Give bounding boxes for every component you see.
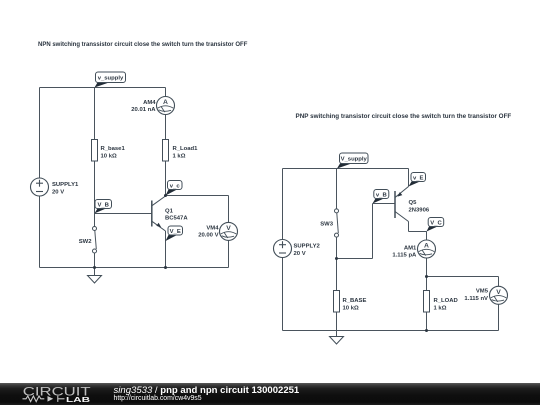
svg-text:R_LOAD: R_LOAD: [434, 298, 458, 304]
svg-text:NPN switching transsistor circ: NPN switching transsistor circuit close …: [38, 42, 248, 48]
svg-text:v_c: v_c: [170, 183, 181, 189]
svg-text:V: V: [496, 289, 501, 296]
svg-text:V_C: V_C: [430, 220, 442, 226]
svg-text:R_base1: R_base1: [101, 146, 126, 152]
svg-text:1.115 pA: 1.115 pA: [392, 252, 417, 258]
svg-text:SW2: SW2: [79, 239, 92, 245]
svg-text:1 kΩ: 1 kΩ: [173, 153, 186, 159]
svg-text:AM4: AM4: [143, 100, 156, 106]
svg-text:v_E: v_E: [413, 175, 424, 181]
svg-text:A: A: [163, 99, 168, 106]
svg-text:v_supply: v_supply: [98, 76, 124, 82]
svg-text:R_Load1: R_Load1: [173, 146, 199, 152]
svg-text:LAB: LAB: [66, 396, 90, 404]
svg-text:Q5: Q5: [409, 200, 418, 206]
svg-text:20 V: 20 V: [52, 189, 64, 195]
svg-text:AM1: AM1: [404, 245, 417, 251]
svg-text:10 kΩ: 10 kΩ: [101, 153, 117, 159]
svg-text:A: A: [424, 243, 429, 250]
svg-text:1.115 nV: 1.115 nV: [464, 296, 488, 302]
svg-text:http://circuitlab.com/cw4v9s5: http://circuitlab.com/cw4v9s5: [114, 395, 202, 402]
svg-text:V_B: V_B: [97, 202, 108, 208]
svg-text:PNP switching transistor circu: PNP switching transistor circuit close t…: [296, 113, 512, 120]
svg-text:SUPPLY1: SUPPLY1: [52, 182, 79, 188]
svg-text:BC547A: BC547A: [165, 216, 188, 222]
svg-text:R_BASE: R_BASE: [343, 298, 367, 304]
svg-text:Q1: Q1: [165, 208, 174, 214]
svg-text:20 V: 20 V: [294, 251, 306, 257]
svg-text:V: V: [226, 225, 231, 232]
svg-text:v_B: v_B: [376, 192, 387, 198]
svg-text:V_supply: V_supply: [341, 157, 368, 163]
svg-text:20.00 V: 20.00 V: [198, 233, 218, 239]
svg-text:VM4: VM4: [206, 226, 219, 232]
svg-text:V_E: V_E: [170, 229, 181, 235]
svg-text:10 kΩ: 10 kΩ: [343, 305, 359, 311]
svg-text:20.01 nA: 20.01 nA: [131, 107, 156, 113]
svg-text:VM5: VM5: [476, 289, 489, 295]
svg-text:1 kΩ: 1 kΩ: [434, 305, 447, 311]
svg-text:2N3906: 2N3906: [409, 207, 430, 213]
svg-text:SW3: SW3: [320, 221, 333, 227]
svg-text:SUPPLY2: SUPPLY2: [294, 244, 321, 250]
